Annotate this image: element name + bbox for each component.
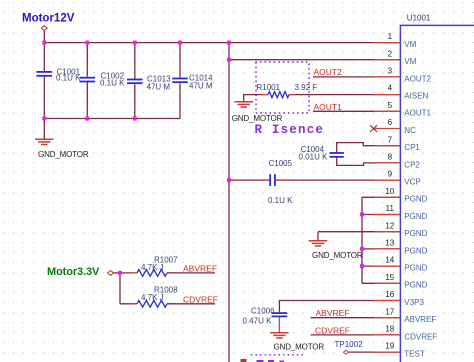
svg-text:NC: NC [404, 126, 416, 135]
svg-text:CDVREF: CDVREF [315, 325, 350, 335]
svg-text:AOUT1: AOUT1 [314, 102, 343, 112]
svg-text:AOUT2: AOUT2 [404, 74, 431, 83]
op-amp U1001 box outline [400, 25, 474, 362]
junction PGND bus pin 14 [360, 264, 364, 268]
pin 8 stub [374, 162, 400, 164]
svg-text:0.1U K: 0.1U K [268, 196, 293, 205]
pin 17 stub [374, 317, 400, 319]
svg-text:PGND: PGND [404, 212, 427, 221]
svg-text:VM: VM [404, 40, 416, 49]
svg-text:14: 14 [385, 256, 394, 265]
wire vertical main x=229 [228, 43, 230, 362]
lead R1001 right [289, 94, 296, 96]
junction PGND bus pin 11 [360, 212, 364, 216]
svg-text:TP1002: TP1002 [335, 340, 364, 349]
svg-text:Motor12V: Motor12V [22, 13, 75, 25]
resistor R1007 zigzag [137, 270, 167, 277]
svg-text:R1001: R1001 [257, 83, 281, 92]
wire C1001 top lead [43, 43, 45, 71]
svg-text:12: 12 [385, 221, 394, 230]
ground GND_MOTOR 2 (R1001) [234, 102, 253, 107]
svg-text:U1001: U1001 [407, 13, 431, 22]
lead R1007 right [167, 272, 174, 274]
wire R1007 left lead [120, 272, 137, 274]
lead R1007 left [131, 272, 138, 274]
junction top bus at C1013 [133, 41, 137, 45]
wire C1013 bottom lead [134, 84, 136, 118]
pin 12 stub [374, 231, 400, 233]
capacitor C1006 bars [272, 312, 288, 314]
wire PGND pin 10 [362, 196, 400, 198]
pin 13 stub [374, 248, 400, 250]
svg-text:1: 1 [388, 32, 393, 41]
svg-text:CDVREF: CDVREF [183, 295, 218, 305]
svg-text:6: 6 [388, 118, 393, 127]
capacitor C1013 bars [127, 79, 143, 81]
svg-text:3.92 F: 3.92 F [295, 83, 318, 92]
wire PGND pin 12 [362, 231, 400, 233]
svg-text:R Isence: R Isence [255, 123, 325, 137]
port diamond Motor12V [41, 26, 47, 31]
junction top bus at C1001 [42, 41, 46, 45]
svg-text:47U M: 47U M [147, 82, 171, 91]
wire R1001 right lead to pin 4 AISEN [289, 94, 400, 96]
wire PGND pin 14 [362, 265, 400, 267]
pin 1 stub [374, 42, 400, 44]
svg-text:VCP: VCP [404, 178, 420, 187]
wire PGND vertical bus [361, 197, 363, 283]
junction PGND bus pin 13 [360, 247, 364, 251]
wire AOUT1 to pin 5 [313, 110, 400, 112]
svg-text:17: 17 [385, 307, 394, 316]
ground GND_MOTOR 3 (PGND) [309, 241, 328, 246]
wire vertical to R1008 [119, 273, 121, 304]
junction bottom bus at C1002 [85, 116, 89, 120]
test point diamond TP1002 [343, 350, 348, 354]
svg-text:PGND: PGND [404, 264, 427, 273]
dotted box around R1001 [256, 62, 309, 113]
dotted box 2 (partial, bottom edge) [252, 354, 307, 356]
svg-text:PGND: PGND [404, 281, 427, 290]
svg-text:0.47U K: 0.47U K [243, 317, 273, 326]
wire pin 7 CP1 to C1004 [337, 143, 400, 153]
wire pin 8 CP2 to C1004 [337, 157, 400, 165]
pin 16 stub [374, 300, 400, 302]
no-connect X on pin 6 [370, 125, 377, 132]
wire PGND pin 13 [362, 248, 400, 250]
svg-text:3: 3 [388, 67, 393, 76]
svg-text:8: 8 [388, 153, 393, 162]
wire ABVREF to pin 17 [311, 317, 400, 319]
wire C1005 to pin 9 VCP [276, 179, 400, 181]
svg-text:4.7K J: 4.7K J [141, 263, 164, 272]
svg-text:CDVREF: CDVREF [404, 332, 437, 341]
wire VCP left segment to C1005 [229, 179, 269, 181]
wire R1007 to ABVREF [167, 272, 215, 274]
wire PGND pin 15 [362, 282, 400, 284]
wire C1006 bottom lead [278, 317, 280, 332]
svg-text:AOUT1: AOUT1 [404, 109, 431, 118]
ground GND_MOTOR 4 (C1006) [270, 333, 289, 338]
svg-text:C1006: C1006 [251, 306, 275, 315]
wire C1014 top lead [179, 43, 181, 79]
svg-text:CP2: CP2 [404, 160, 420, 169]
wire ground stub below C1001 [43, 119, 45, 139]
wire AOUT2 to pin 3 [313, 76, 400, 78]
pin 2 stub [374, 59, 400, 61]
junction bottom bus at C1001 [42, 116, 46, 120]
wire pin 2 VM [229, 59, 400, 61]
resistor R1008 zigzag [137, 300, 167, 307]
svg-text:AOUT2: AOUT2 [314, 67, 343, 77]
svg-text:CP1: CP1 [404, 143, 420, 152]
wire CDVREF to pin 18 [311, 334, 400, 336]
svg-text:5: 5 [388, 101, 393, 110]
svg-text:0.1U K: 0.1U K [100, 79, 125, 88]
svg-text:V3P3: V3P3 [404, 298, 424, 307]
port diamond Motor3.3V [108, 271, 114, 276]
svg-text:18: 18 [385, 325, 394, 334]
svg-text:ABVREF: ABVREF [316, 308, 350, 318]
wire C1001 bottom lead [43, 77, 45, 119]
capacitor C1005 bars [269, 174, 271, 186]
junction VCP wire at x=229 [227, 178, 231, 182]
junction top bus at x=229 [227, 41, 231, 45]
wire pin 16 V3P3 to C1006 [279, 301, 400, 313]
resistor R1001 zigzag [268, 92, 289, 98]
lead R1001 left [262, 94, 268, 96]
junction pin2 wire at x=229 [227, 58, 231, 62]
junction top bus at C1002 [85, 41, 89, 45]
wire TP1002 to pin 19 TEST [348, 351, 400, 353]
svg-text:11: 11 [386, 204, 395, 213]
svg-text:2: 2 [388, 49, 393, 58]
wire ground stub PGND [317, 232, 319, 241]
pin 11 stub [374, 214, 400, 216]
wire C1002 bottom lead [86, 82, 88, 118]
capacitor C1014 bars [172, 78, 188, 80]
wire Motor3.3V to junction [113, 272, 120, 274]
svg-text:PGND: PGND [404, 195, 427, 204]
pin 5 stub [374, 110, 400, 112]
svg-text:PGND: PGND [404, 229, 427, 238]
svg-text:16: 16 [385, 290, 394, 299]
junction Motor3.3V branch [118, 271, 122, 275]
svg-text:GND_MOTOR: GND_MOTOR [232, 114, 283, 123]
svg-text:4: 4 [388, 84, 393, 93]
svg-text:PGND: PGND [404, 246, 427, 255]
partial text tops at bottom edge [241, 359, 285, 362]
svg-text:10: 10 [385, 187, 394, 196]
svg-text:0.01U K: 0.01U K [299, 153, 329, 162]
wire bottom bus of caps [44, 118, 180, 120]
wire C1014 bottom lead [179, 83, 181, 118]
wire C1002 top lead [86, 43, 88, 77]
junction top bus at C1014 [178, 41, 182, 45]
svg-text:15: 15 [385, 273, 394, 282]
junction bottom bus at C1013 [133, 116, 137, 120]
svg-text:4.7K J: 4.7K J [141, 293, 164, 302]
svg-text:Motor3.3V: Motor3.3V [47, 266, 100, 278]
svg-text:GND_MOTOR: GND_MOTOR [312, 251, 363, 260]
svg-text:19: 19 [385, 342, 394, 351]
pin 7 stub [374, 145, 400, 147]
capacitor C1002 bars [80, 77, 96, 79]
pin 4 stub [374, 94, 400, 96]
wire PGND ground tap [318, 231, 362, 233]
lead R1008 left [131, 303, 138, 305]
pin 9 stub [374, 179, 400, 181]
wire Motor12V vertical stub [43, 31, 45, 43]
pin 18 stub [374, 334, 400, 336]
svg-text:13: 13 [385, 239, 394, 248]
pin 6 NC stub [374, 128, 400, 130]
svg-text:TEST: TEST [404, 350, 425, 359]
wire R1008 to CDVREF [167, 303, 215, 305]
wire R1001 left lead to ground [244, 95, 268, 102]
lead R1008 right [167, 303, 174, 305]
pin 10 stub [374, 196, 400, 198]
svg-text:47U M: 47U M [189, 81, 213, 90]
svg-text:GND_MOTOR: GND_MOTOR [38, 150, 89, 159]
pin 19 stub [374, 351, 400, 353]
svg-text:9: 9 [388, 170, 393, 179]
wire C1013 top lead [134, 43, 136, 79]
svg-text:C1005: C1005 [269, 159, 293, 168]
svg-text:VM: VM [404, 57, 416, 66]
ground GND_MOTOR 1 [35, 139, 54, 144]
wire top bus VM (pin 1) [44, 42, 400, 44]
svg-text:0.1U K: 0.1U K [56, 73, 81, 82]
pin 14 stub [374, 265, 400, 267]
svg-text:GND_MOTOR: GND_MOTOR [274, 343, 325, 352]
svg-text:AISEN: AISEN [404, 92, 428, 101]
wire R1008 left lead [120, 303, 137, 305]
svg-text:ABVREF: ABVREF [183, 264, 217, 274]
wire PGND pin 11 [362, 214, 400, 216]
svg-text:ABVREF: ABVREF [404, 315, 436, 324]
capacitor C1001 bars [37, 71, 53, 73]
pin 15 stub [374, 282, 400, 284]
pin 3 stub [374, 76, 400, 78]
svg-text:7: 7 [388, 135, 393, 144]
capacitor C1004 bars [330, 152, 344, 154]
